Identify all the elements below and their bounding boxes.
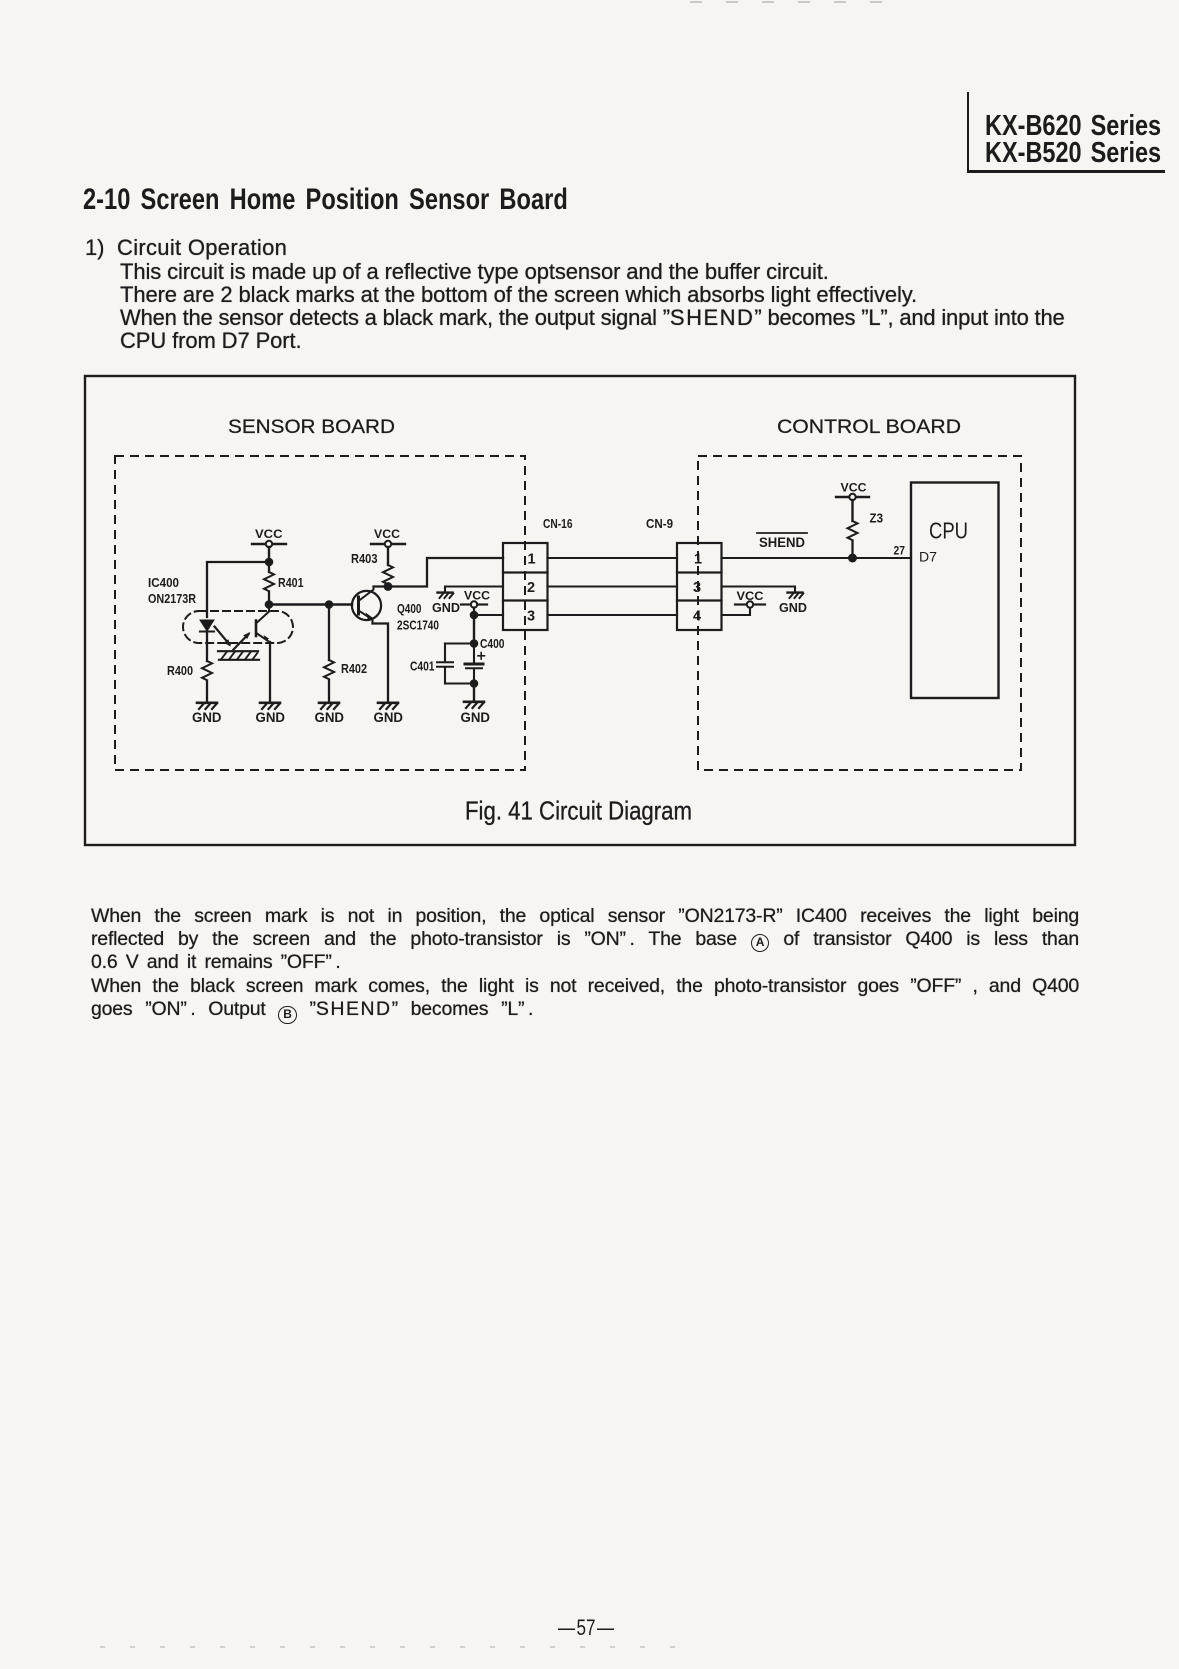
svg-text:4: 4 — [693, 609, 701, 625]
svg-text:CONTROL BOARD: CONTROL BOARD — [777, 417, 961, 438]
node: C400 top junction dot — [470, 639, 479, 648]
svg-text:Z3: Z3 — [870, 512, 884, 526]
power VCC terminal (CN-16 pin 3) — [461, 601, 487, 615]
svg-text:SENSOR BOARD: SENSOR BOARD — [228, 417, 395, 438]
power VCC terminal (IC400 branch) — [252, 541, 286, 562]
svg-text:VCC: VCC — [464, 589, 490, 603]
resistor R403 — [383, 565, 393, 584]
ground GND6 — [464, 702, 484, 708]
svg-text:CPU: CPU — [929, 518, 968, 544]
svg-text:R401: R401 — [278, 575, 304, 590]
resistor R400 — [202, 661, 212, 680]
intro line 4 — [120, 329, 302, 352]
wire: phototransistor emitter to ground — [269, 642, 271, 702]
svg-text:VCC: VCC — [374, 527, 400, 541]
wire: C401 branch top — [445, 642, 474, 644]
node: collector junction dot — [384, 582, 393, 591]
svg-text:R403: R403 — [351, 551, 378, 566]
ground GND3 — [319, 703, 339, 709]
svg-text:Fig. 41 Circuit Diagram: Fig. 41 Circuit Diagram — [465, 796, 692, 826]
LED of IC400 (emitter diode) — [200, 621, 214, 633]
node: base node junction dot — [265, 600, 274, 609]
svg-text:1: 1 — [694, 552, 702, 568]
svg-text:R402: R402 — [341, 661, 367, 676]
node: pin3 junction dot — [470, 611, 479, 620]
svg-text:CN-9: CN-9 — [646, 517, 673, 531]
wire: R403 to collector net — [387, 585, 389, 587]
svg-text:CN-16: CN-16 — [543, 517, 573, 531]
series box horizontal rule — [967, 170, 1165, 173]
wire: CN-9 pin3 to ground — [722, 587, 796, 593]
wire: CN-16 pin1 to CN-9 pin1 — [548, 557, 678, 559]
wire: R402 tap down — [328, 605, 330, 661]
wire: CN-16 pin 2 to ground — [445, 587, 503, 593]
wire: collector net to CN-16 pin 1 — [374, 558, 504, 587]
SHEND overline — [757, 532, 807, 534]
wire: CN-16 pin2 to CN-9 pin3 — [548, 585, 678, 587]
resistor Z3 — [848, 521, 858, 540]
svg-text:27: 27 — [894, 544, 906, 558]
svg-text:VCC: VCC — [255, 527, 283, 541]
wire: Q400 emitter to ground — [373, 624, 389, 703]
figure frame — [85, 376, 1075, 845]
wire: VCC junction down to R401 — [268, 562, 270, 572]
svg-text:D7: D7 — [919, 549, 937, 565]
wire: caps to ground — [473, 684, 475, 702]
paragraph line 2 — [91, 928, 1079, 952]
power VCC terminal (CN-9 pin 4) — [735, 601, 765, 607]
intro line 3 — [120, 306, 1065, 329]
wire: R401 to base node — [268, 592, 270, 605]
wire: CN-9 pin4 to VCC — [722, 609, 751, 616]
power VCC terminal (Z3) — [836, 494, 869, 521]
svg-text:2: 2 — [527, 580, 535, 596]
paragraph line 3 — [91, 951, 1079, 974]
node: R402 tap junction dot — [325, 600, 334, 609]
node: cap bottom junction dot — [470, 679, 479, 688]
transistor Q400 — [352, 587, 381, 624]
ground GND7 (mini, at CN-9 pin 3) — [788, 593, 804, 598]
scan artifact top — [690, 1, 900, 3]
svg-text:ON2173R: ON2173R — [148, 592, 196, 606]
wire: CN-9 pin1 to CPU D7 (SHEND net) — [722, 557, 912, 559]
capacitor C400 — [465, 644, 485, 684]
node: VCC junction dot — [265, 558, 274, 567]
intro line 2 — [120, 283, 917, 306]
IC400 dashed outline — [183, 611, 293, 643]
svg-text:GND: GND — [374, 709, 404, 725]
intro line 1 — [120, 260, 829, 283]
series box vertical rule — [967, 92, 969, 172]
wire: base net to Q400 — [269, 603, 352, 606]
svg-text:1: 1 — [528, 552, 536, 568]
IC CPU box — [911, 483, 999, 699]
capacitor C401 — [437, 644, 453, 684]
svg-text:3: 3 — [527, 609, 535, 625]
series title line 2 — [985, 137, 1161, 170]
svg-text:2SC1740: 2SC1740 — [397, 618, 439, 633]
svg-text:3: 3 — [693, 580, 701, 596]
svg-text:R400: R400 — [167, 663, 193, 678]
schematic figure — [0, 0, 1179, 880]
sensor board dashed box — [115, 456, 525, 770]
wire: LED cathode to R400 — [206, 632, 208, 661]
phototransistor of IC400 — [256, 605, 270, 643]
svg-text:GND: GND — [461, 709, 491, 725]
scan artifact bottom dotted line — [100, 1646, 700, 1648]
section heading — [83, 183, 568, 217]
svg-text:C401: C401 — [410, 659, 435, 674]
control board dashed box — [698, 456, 1021, 770]
resistor R402 — [324, 660, 334, 679]
wire: C401 branch bottom — [445, 682, 474, 684]
ground GND2 — [260, 703, 280, 709]
svg-text:VCC: VCC — [841, 481, 867, 495]
ground GND4 — [378, 703, 398, 709]
wire: R400 to ground — [206, 681, 208, 702]
paragraph line 4 — [91, 975, 1079, 998]
svg-text:GND: GND — [432, 600, 460, 615]
connector CN-16 — [503, 543, 548, 630]
wire: Z3 to SHEND net — [851, 541, 853, 558]
list number — [85, 236, 104, 259]
svg-text:SHEND: SHEND — [759, 535, 805, 550]
screen reflective surface — [218, 651, 259, 660]
svg-text:GND: GND — [779, 600, 807, 615]
paragraph line 5 — [91, 998, 1079, 1025]
resistor R401 — [264, 572, 274, 591]
page number — [558, 1615, 614, 1641]
light arrow to screen — [215, 627, 232, 647]
series title line 1 — [985, 110, 1161, 143]
svg-text:GND: GND — [315, 709, 345, 725]
wire: VCC junction to LED branch — [207, 562, 269, 617]
paragraph line 1 — [91, 905, 1079, 928]
power VCC terminal (R403) — [371, 541, 405, 565]
intro line 0 — [117, 236, 287, 259]
ground GND5 (mini, at CN-16 pin 2) — [438, 593, 454, 598]
svg-text:C400: C400 — [480, 636, 505, 651]
ground GND1 — [197, 703, 217, 709]
svg-text:IC400: IC400 — [148, 576, 179, 590]
svg-text:GND: GND — [256, 709, 286, 725]
light arrow reflected — [234, 632, 251, 650]
node: Z3 junction dot — [848, 554, 857, 563]
svg-text:Q400: Q400 — [397, 601, 422, 616]
wire: CN-16 pin3 to CN-9 pin4 — [548, 614, 678, 616]
svg-text:VCC: VCC — [737, 589, 764, 603]
svg-text:GND: GND — [192, 709, 222, 725]
wire: junction to CN-16 pin 3 — [474, 614, 503, 616]
connector CN-9 — [677, 543, 722, 630]
wire: R402 to ground — [328, 680, 330, 702]
wire: junction down to capacitors — [473, 615, 475, 644]
